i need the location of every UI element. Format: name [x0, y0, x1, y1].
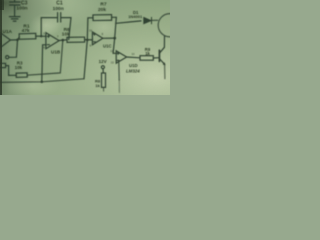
op-amp U1A	[0, 29, 13, 52]
wire U1C output	[103, 37, 115, 39]
wire 12V to R8	[102, 69, 104, 73]
resistor R1	[18, 24, 42, 40]
wire junction down to ground rail	[84, 40, 87, 79]
paper background	[0, 0, 170, 98]
capacitor C3	[10, 0, 28, 16]
wire R7 right vertical through junction down to U1D	[113, 17, 116, 53]
op-amp U1D	[110, 49, 140, 73]
resistor R2 (cut off at left edge)	[0, 59, 6, 68]
ground	[9, 17, 20, 22]
resistor R6	[62, 27, 93, 43]
node U1A output junction	[16, 39, 19, 42]
resistor R7	[87, 2, 116, 39]
motor M1 (circle cut at right edge)	[158, 14, 181, 37]
wire U1A output	[10, 39, 17, 41]
diode D1	[128, 10, 158, 24]
wire U1D inverting input down	[118, 62, 120, 80]
photo grain overlay	[0, 0, 170, 95]
left photo edge dark strip	[0, 0, 4, 95]
node R1/C1/U1B input junction	[40, 35, 46, 37]
node rail junction	[41, 81, 44, 84]
wire motor to collector	[163, 36, 165, 47]
wire output tap to terminal	[9, 40, 18, 58]
resistor R8	[95, 73, 106, 91]
transistor Q1	[159, 47, 165, 78]
op-amp U1B	[43, 31, 60, 54]
resistor R3	[15, 60, 27, 77]
resistor R9	[140, 47, 159, 60]
wire U1D output	[127, 56, 140, 59]
wire R3 left to edge resistor	[6, 66, 17, 76]
ground rail wire	[0, 79, 84, 83]
capacitor C1	[41, 1, 71, 40]
wire U1B inverting input down to rail	[42, 45, 46, 82]
wire diode branch	[116, 21, 141, 23]
node U1B output junction	[62, 39, 65, 42]
node output terminal	[6, 56, 9, 59]
node 12V supply terminal	[99, 59, 107, 69]
wire feedback loop down to R3	[27, 40, 63, 75]
op-amp U1C	[89, 28, 112, 48]
node R6/R7/U1C junction	[86, 39, 89, 42]
wire U1B output	[59, 39, 67, 42]
node U1C output junction	[113, 37, 116, 40]
